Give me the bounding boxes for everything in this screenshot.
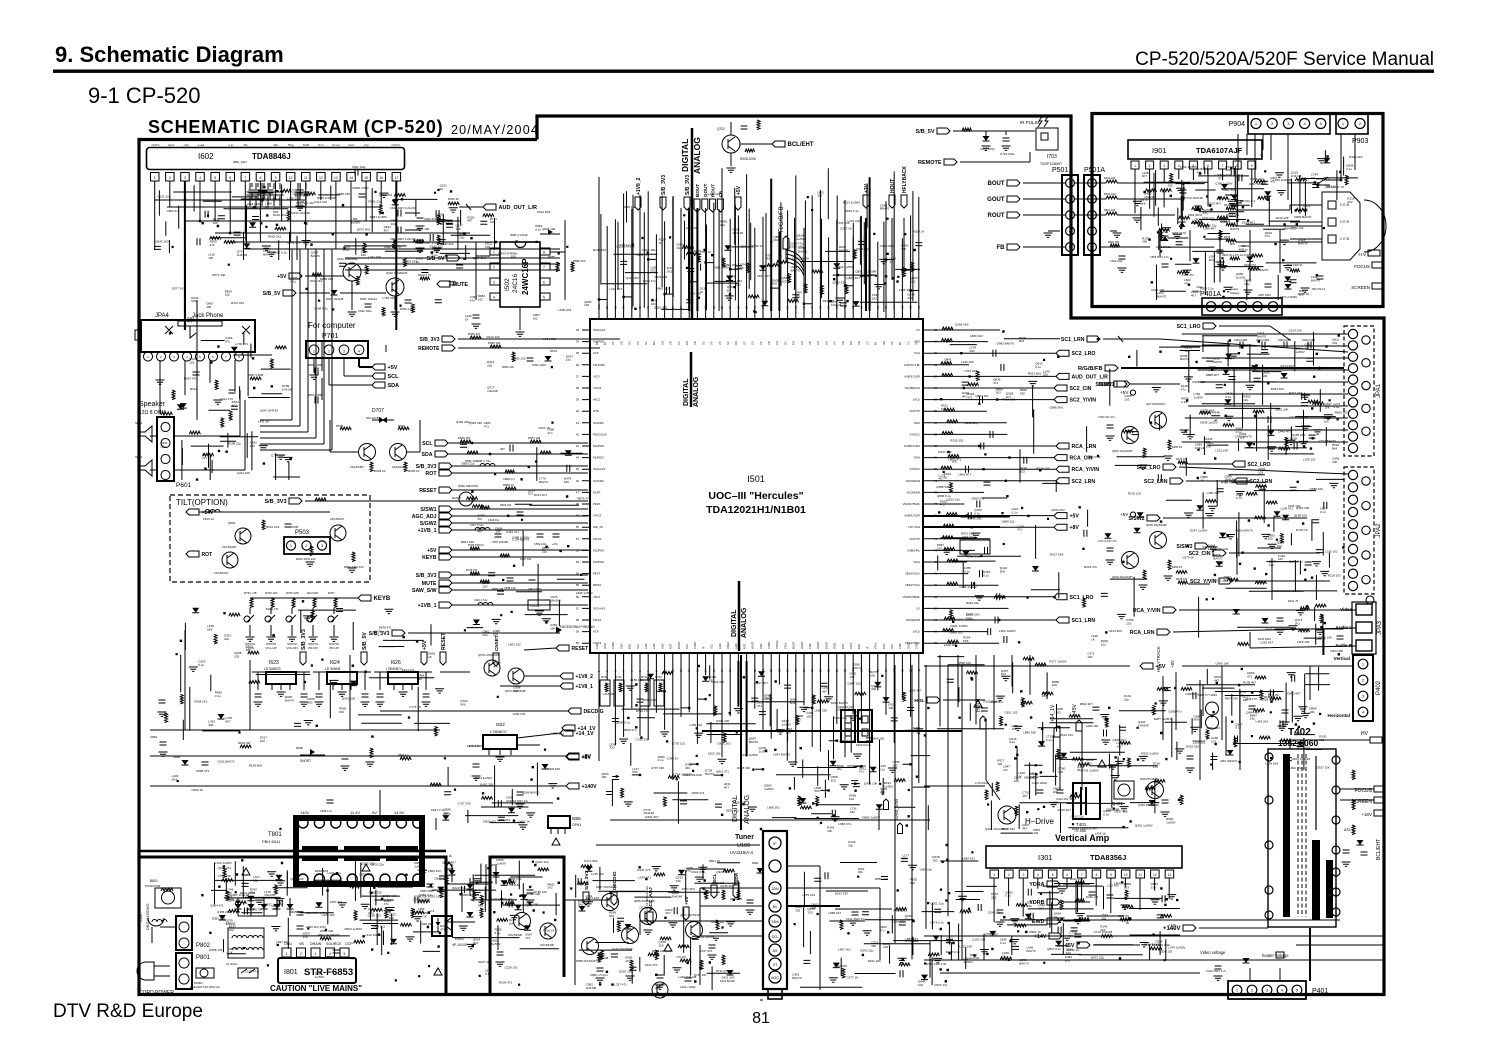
svg-text:AU: AU (800, 341, 804, 345)
svg-text:P3/RX: P3/RX (593, 502, 601, 506)
svg-text:D564 1K: D564 1K (1029, 930, 1041, 934)
svg-text:100: 100 (213, 221, 218, 225)
svg-text:0.1u: 0.1u (535, 227, 541, 231)
svg-text:RO: RO (685, 341, 689, 345)
svg-text:I804: I804 (455, 936, 464, 941)
svg-text:P05/CSCLK: P05/CSCLK (593, 432, 607, 436)
svg-text:10K: 10K (1053, 790, 1058, 794)
svg-text:R236 471: R236 471 (499, 980, 512, 984)
svg-text:57: 57 (576, 606, 580, 610)
svg-text:D602 1N4148: D602 1N4148 (326, 297, 344, 301)
svg-text:10K: 10K (1052, 683, 1057, 687)
svg-text:4K7: 4K7 (962, 395, 968, 399)
svg-text:CBS4/YUK1/: CBS4/YUK1/ (905, 572, 920, 576)
svg-text:+5V: +5V (427, 548, 437, 554)
svg-text:CNSET: CNSET (494, 635, 499, 651)
svg-text:22p: 22p (224, 637, 229, 641)
svg-text:D419 330: D419 330 (1186, 744, 1199, 748)
svg-text:100: 100 (1012, 727, 1017, 731)
svg-text:S/B_3V3: S/B_3V3 (301, 629, 307, 650)
svg-text:D481 1u/50V: D481 1u/50V (950, 624, 968, 628)
svg-text:GND: GND (833, 643, 837, 649)
svg-text:C413 5K6: C413 5K6 (1109, 629, 1123, 633)
EEPROM I502 24C16 (490, 242, 550, 307)
svg-text:D114 100: D114 100 (314, 200, 327, 204)
svg-text:RCA_Y/VIN: RCA_Y/VIN (1072, 467, 1100, 473)
svg-text:R205 102: R205 102 (593, 248, 606, 252)
svg-text:D979 BAV70: D979 BAV70 (1251, 268, 1268, 272)
svg-text:R875 47u: R875 47u (577, 497, 590, 501)
svg-text:C993 103: C993 103 (654, 275, 667, 279)
svg-text:L806 330: L806 330 (428, 869, 441, 873)
svg-text:I623: I623 (269, 660, 279, 666)
svg-text:DIGITAL: DIGITAL (731, 609, 738, 637)
svg-text:D411 103: D411 103 (722, 975, 735, 979)
svg-text:471: 471 (757, 704, 762, 708)
svg-text:4K7: 4K7 (232, 403, 238, 407)
standby supply transistors (576, 870, 740, 998)
svg-text:R700 1K: R700 1K (1296, 528, 1308, 532)
svg-text:D667 1N4148: D667 1N4148 (262, 197, 281, 201)
svg-text:10K: 10K (526, 904, 531, 908)
svg-text:+Vp: +Vp (363, 143, 369, 147)
svg-text:102: 102 (1020, 470, 1025, 474)
svg-text:471: 471 (967, 396, 972, 400)
svg-text:1u/50V: 1u/50V (759, 749, 769, 753)
svg-text:0.1u: 0.1u (1334, 405, 1340, 409)
svg-text:SC: SC (644, 341, 648, 345)
svg-text:Q502: Q502 (228, 521, 236, 525)
I501 pins (576, 304, 938, 672)
svg-text:8: 8 (543, 251, 545, 255)
svg-text:L939 1u/50V: L939 1u/50V (576, 591, 593, 595)
svg-text:R754 +7B: R754 +7B (244, 591, 257, 595)
svg-text:SCL: SCL (685, 643, 689, 649)
svg-text:56: 56 (576, 595, 580, 599)
svg-text:2SA1048Y: 2SA1048Y (392, 465, 406, 469)
svg-text:22p: 22p (1250, 717, 1255, 721)
svg-text:C676 0.1u: C676 0.1u (930, 921, 944, 925)
EEPROM wiring (418, 208, 620, 369)
svg-text:D419 5K6: D419 5K6 (880, 244, 894, 248)
svg-text:VTAC3: VTAC3 (593, 514, 602, 518)
svg-text:R138 4K7: R138 4K7 (1243, 680, 1257, 684)
svg-text:FACEDOWN PINNING: FACEDOWN PINNING (560, 625, 595, 629)
svg-text:Voltage: Voltage (1230, 291, 1240, 295)
svg-text:Q169 4K7: Q169 4K7 (442, 861, 456, 865)
svg-text:L597 471: L597 471 (638, 876, 651, 880)
svg-text:BAV70: BAV70 (705, 772, 714, 776)
svg-text:VD: VD (693, 341, 697, 345)
svg-text:1K: 1K (1126, 921, 1130, 925)
svg-text:47u: 47u (1225, 197, 1230, 201)
svg-text:R580 352: R580 352 (458, 436, 471, 440)
svg-text:47u: 47u (477, 517, 482, 521)
horizontal drive (975, 777, 1183, 833)
svg-text:BAV70: BAV70 (1213, 360, 1222, 364)
svg-text:UOC–III "Hercules": UOC–III "Hercules" (708, 490, 803, 502)
svg-text:103: 103 (782, 279, 787, 283)
svg-text:D400 47u: D400 47u (643, 279, 656, 283)
svg-text:AU: AU (824, 341, 828, 345)
svg-text:VS: VS (718, 341, 722, 345)
svg-text:R218 103: R218 103 (1036, 467, 1049, 471)
svg-text:C187 1K: C187 1K (840, 226, 852, 230)
svg-text:OCP: OCP (345, 942, 353, 946)
svg-text:0.1u: 0.1u (1046, 738, 1052, 742)
extra CRT parts (1148, 166, 1322, 300)
svg-text:SC: SC (726, 341, 730, 345)
svg-text:P21/PWM: P21/PWM (593, 363, 605, 367)
svg-text:R235 330: R235 330 (950, 439, 963, 443)
scart av wiring (1061, 323, 1356, 653)
svg-text:DIGITAL: DIGITAL (680, 139, 690, 172)
svg-text:1N4148: 1N4148 (237, 253, 248, 257)
svg-text:TDA8356J: TDA8356J (1090, 853, 1126, 862)
svg-text:SDA: SDA (422, 452, 433, 458)
svg-text:BOUT: BOUT (792, 641, 796, 649)
main IC I501 UOC TDA12021 (590, 319, 923, 653)
svg-text:3460 1N4007S: 3460 1N4007S (1220, 759, 1238, 763)
svg-text:SGW: SGW (914, 456, 921, 460)
svg-text:AS: AS (773, 949, 778, 953)
svg-text:2881 1.80M: 2881 1.80M (308, 363, 323, 367)
svg-text:VS: VS (759, 341, 763, 345)
svg-text:102: 102 (850, 675, 855, 679)
svg-text:+14_1V: +14_1V (578, 726, 597, 732)
svg-text:22p: 22p (250, 891, 255, 895)
svg-text:C351 22p: C351 22p (931, 901, 944, 905)
CRT board border (1092, 114, 1383, 307)
svg-text:1K: 1K (440, 187, 444, 191)
headphone jack JPA4 (135, 313, 255, 361)
svg-text:4: 4 (199, 176, 201, 180)
svg-text:CVBS: CVBS (693, 642, 697, 649)
svg-text:REMOTE: REMOTE (918, 160, 942, 166)
svg-text:1N4148: 1N4148 (487, 389, 498, 393)
svg-text:L604 1N4148: L604 1N4148 (260, 409, 278, 413)
svg-text:R586 2K3: R586 2K3 (573, 259, 586, 263)
svg-text:R1-: R1- (244, 143, 249, 147)
svg-text:22p: 22p (1027, 904, 1032, 908)
svg-text:22p: 22p (1077, 768, 1082, 772)
CRT board wiring (1074, 134, 1363, 299)
svg-text:L155 102: L155 102 (899, 288, 912, 292)
svg-text:D347 2K2: D347 2K2 (231, 301, 245, 305)
svg-text:0.1u: 0.1u (432, 253, 438, 257)
svg-text:2K2: 2K2 (548, 886, 554, 890)
svg-text:R128 5K6: R128 5K6 (249, 763, 263, 767)
svg-text:C888 +7L4(m): C888 +7L4(m) (590, 973, 608, 977)
svg-text:HOL: HOL (914, 698, 924, 704)
flyback transformer T402 (1265, 727, 1340, 927)
svg-text:R368 103: R368 103 (209, 948, 222, 952)
svg-text:SC1_LRO: SC1_LRO (1177, 324, 1201, 330)
svg-text:C797 330: C797 330 (651, 766, 664, 770)
svg-text:R218 47u: R218 47u (1084, 565, 1097, 569)
svg-text:Q702: Q702 (717, 127, 725, 131)
svg-text:1u/50V: 1u/50V (963, 960, 973, 964)
svg-text:4K7: 4K7 (477, 529, 483, 533)
svg-text:C941 0.1u: C941 0.1u (431, 808, 445, 812)
svg-text:D803 471: D803 471 (948, 458, 961, 462)
svg-text:L500 2K2: L500 2K2 (558, 308, 571, 312)
svg-text:22p: 22p (253, 878, 258, 882)
svg-text:RESET: RESET (419, 488, 437, 494)
left interface rows (369, 436, 595, 637)
svg-text:103: 103 (482, 585, 487, 589)
svg-text:AGC: AGC (771, 976, 779, 980)
svg-text:R396 10K: R396 10K (724, 263, 737, 267)
svg-text:I624: I624 (330, 660, 340, 666)
svg-text:P1AO2: P1AO2 (593, 537, 602, 541)
svg-text:VOL-DN: VOL-DN (286, 646, 297, 650)
svg-text:R547 100: R547 100 (520, 557, 532, 561)
svg-text:0.1u: 0.1u (495, 931, 501, 935)
svg-text:0.1u: 0.1u (1244, 282, 1250, 286)
svg-text:22p: 22p (542, 550, 547, 554)
svg-text:P801: P801 (196, 955, 211, 961)
svg-text:L754 330: L754 330 (964, 369, 977, 373)
svg-text:C118 1N4148: C118 1N4148 (616, 245, 635, 249)
svg-text:D334 1N4148: D334 1N4148 (291, 211, 310, 215)
speaker connector P601 (135, 401, 192, 489)
svg-text:D343 2K2: D343 2K2 (717, 742, 731, 746)
svg-text:13: 13 (1168, 873, 1172, 877)
svg-text:R741 1u/50V: R741 1u/50V (1081, 769, 1099, 773)
svg-text:Z202 KACS: Z202 KACS (856, 743, 871, 747)
svg-text:L600 4K7: L600 4K7 (958, 472, 971, 476)
svg-text:Q138 4K7: Q138 4K7 (1250, 177, 1264, 181)
svg-text:Y1/CY4G4: Y1/CY4G4 (908, 525, 921, 529)
svg-text:D204 4K7: D204 4K7 (645, 815, 659, 819)
svg-text:R906 471: R906 471 (1193, 739, 1206, 743)
svg-text:ROT: ROT (202, 552, 213, 558)
svg-text:100: 100 (772, 282, 777, 286)
svg-text:ROT: ROT (669, 643, 673, 649)
svg-text:Q428 10K: Q428 10K (864, 782, 878, 786)
svg-text:102: 102 (1058, 770, 1063, 774)
svg-text:D297 10K: D297 10K (1115, 810, 1128, 814)
svg-text:D330 102: D330 102 (1159, 950, 1172, 954)
svg-text:L463 2K2: L463 2K2 (1256, 719, 1269, 723)
svg-text:10K: 10K (456, 227, 461, 231)
svg-text:MUTE: MUTE (422, 581, 437, 587)
svg-text:HOUT: HOUT (890, 179, 896, 193)
svg-text:0.1u: 0.1u (1235, 726, 1241, 730)
svg-text:0.1u: 0.1u (1236, 496, 1242, 500)
svg-text:5K6: 5K6 (609, 914, 615, 918)
svg-text:5K6: 5K6 (1332, 446, 1338, 450)
svg-text:4: 4 (1037, 873, 1039, 877)
svg-text:L868 2K2: L868 2K2 (767, 806, 780, 810)
svg-text:GO: GO (882, 341, 886, 345)
svg-text:1K: 1K (428, 655, 432, 659)
svg-text:22p: 22p (391, 222, 396, 226)
svg-text:AOCTS7: AOCTS7 (910, 537, 921, 541)
svg-text:D586 100: D586 100 (320, 929, 333, 933)
svg-text:55: 55 (576, 583, 580, 587)
svg-text:I602: I602 (198, 152, 214, 161)
svg-text:heater voltage: heater voltage (1262, 953, 1289, 958)
svg-text:0.1u: 0.1u (198, 663, 204, 667)
deflection extra parts (940, 667, 1340, 973)
svg-text:D266 47u: D266 47u (435, 877, 448, 881)
svg-text:38: 38 (576, 386, 580, 390)
svg-text:58: 58 (576, 618, 580, 622)
middle power rails (150, 630, 604, 829)
svg-text:DIGITAL: DIGITAL (683, 378, 690, 406)
svg-text:Gnd: Gnd (168, 143, 174, 147)
svg-text:SC2_LRO: SC2_LRO (1072, 351, 1096, 357)
svg-text:Q868 0.1u: Q868 0.1u (937, 494, 951, 498)
svg-text:AU: AU (816, 341, 820, 345)
svg-text:SVR: SVR (303, 143, 310, 147)
svg-text:C979 1K: C979 1K (700, 250, 712, 254)
svg-text:R810 4K7: R810 4K7 (1080, 702, 1094, 706)
svg-text:471: 471 (1269, 563, 1274, 567)
svg-text:CV: CV (751, 341, 755, 345)
svg-text:D861: D861 (752, 861, 759, 865)
svg-text:3: 3 (493, 281, 495, 285)
svg-text:R340 +39: R340 +39 (1086, 895, 1099, 899)
svg-text:L78M05CV: L78M05CV (386, 667, 403, 671)
svg-text:BAV70: BAV70 (798, 250, 807, 254)
svg-text:BL: BL (874, 341, 878, 345)
svg-text:HOUT: HOUT (816, 641, 820, 649)
svg-text:39: 39 (576, 398, 580, 402)
svg-text:+5V: +5V (1070, 514, 1080, 520)
svg-text:C713 1N4148: C713 1N4148 (1290, 415, 1309, 419)
svg-text:22p: 22p (720, 223, 725, 227)
svg-text:53: 53 (576, 560, 580, 564)
svg-text:L560 22p: L560 22p (1202, 216, 1215, 220)
svg-text:IF: IF (701, 646, 705, 649)
svg-text:1N4148: 1N4148 (831, 303, 842, 307)
svg-text:Q602 1.5C8643F: Q602 1.5C8643F (386, 271, 408, 275)
svg-text:2K2: 2K2 (172, 777, 178, 781)
svg-text:R660 3K: R660 3K (448, 197, 459, 201)
svg-text:0.1u: 0.1u (343, 248, 349, 252)
svg-text:2881 0.80M: 2881 0.80M (308, 393, 323, 397)
svg-text:103: 103 (1299, 293, 1304, 297)
svg-text:1: 1 (286, 952, 288, 956)
svg-text:D888 4K7: D888 4K7 (1206, 373, 1220, 377)
svg-text:P401: P401 (1312, 988, 1328, 995)
svg-text:C390 22p: C390 22p (965, 421, 978, 425)
svg-text:ASCN24G8: ASCN24G8 (906, 490, 920, 494)
svg-text:R114 330: R114 330 (487, 335, 500, 339)
svg-text:Q583 330: Q583 330 (469, 421, 483, 425)
svg-text:330: 330 (417, 677, 422, 681)
svg-text:60: 60 (576, 641, 580, 645)
svg-text:ANALOG: ANALOG (692, 137, 702, 174)
svg-text:VSF/RCTB/WL: VSF/RCTB/WL (903, 502, 921, 506)
svg-text:Q168 10K: Q168 10K (789, 245, 803, 249)
svg-text:R468 330: R468 330 (737, 766, 750, 770)
svg-text:GND: GND (603, 643, 607, 649)
svg-text:C868 473: C868 473 (196, 769, 209, 773)
svg-text:10K: 10K (550, 627, 555, 631)
svg-text:4P-1010C: 4P-1010C (452, 943, 468, 947)
svg-text:VD: VD (808, 341, 812, 345)
connector P401 (1228, 981, 1328, 999)
svg-text:D502 103: D502 103 (619, 969, 632, 973)
svg-text:R556 447: R556 447 (468, 332, 481, 336)
svg-text:VD: VD (857, 341, 861, 345)
svg-text:D861 10K: D861 10K (1275, 407, 1288, 411)
svg-text:R888 1K: R888 1K (503, 483, 514, 487)
svg-text:C E B: C E B (1340, 237, 1350, 241)
svg-text:L903 102: L903 102 (508, 642, 521, 646)
svg-text:22p: 22p (1002, 954, 1007, 958)
svg-text:D989 BAV70: D989 BAV70 (1294, 215, 1311, 219)
svg-text:R874 330: R874 330 (1225, 696, 1238, 700)
svg-text:AUD_OUT_L/R: AUD_OUT_L/R (1072, 374, 1109, 380)
svg-text:I822: I822 (496, 722, 505, 727)
svg-text:Q294 2K2: Q294 2K2 (1051, 508, 1065, 512)
svg-text:C719 100u: C719 100u (1000, 152, 1015, 156)
svg-text:HV: HV (1361, 731, 1369, 737)
svg-text:SC2_Y/VIN: SC2_Y/VIN (1070, 398, 1097, 404)
svg-text:C377 1K: C377 1K (847, 976, 859, 980)
svg-text:T402: T402 (1288, 727, 1311, 738)
svg-text:U100: U100 (737, 843, 750, 849)
svg-text:D577 2K2: D577 2K2 (172, 286, 186, 290)
svg-text:R531: R531 (398, 424, 406, 428)
svg-text:Q50H H8N7009: Q50H H8N7009 (458, 484, 478, 488)
svg-text:103: 103 (234, 654, 239, 658)
svg-text:ANALOG: ANALOG (741, 607, 748, 638)
svg-text:L849 102: L849 102 (872, 736, 885, 740)
svg-text:BLK: BLK (857, 644, 861, 649)
connector JPA1 (1344, 326, 1382, 456)
svg-text:L694 47u: L694 47u (1289, 766, 1302, 770)
svg-text:C700 22p: C700 22p (1070, 814, 1083, 818)
svg-text:L858 4K7: L858 4K7 (828, 911, 841, 915)
svg-text:C615 0.1u: C615 0.1u (639, 906, 653, 910)
svg-text:5K6: 5K6 (632, 770, 638, 774)
svg-text:D103 103: D103 103 (490, 897, 503, 901)
svg-text:S/SW2: S/SW2 (1176, 544, 1192, 550)
svg-text:22p: 22p (1311, 176, 1316, 180)
svg-text:C902 BAV70: C902 BAV70 (983, 699, 1000, 703)
svg-text:RCA_LRN: RCA_LRN (1072, 444, 1097, 450)
svg-text:Q166 5K6: Q166 5K6 (379, 193, 393, 197)
svg-text:R897 102: R897 102 (711, 920, 724, 924)
svg-text:R321 +7B: R321 +7B (1070, 877, 1083, 881)
svg-text:LD?D8W23: LD?D8W23 (264, 667, 281, 671)
svg-text:330: 330 (208, 723, 213, 727)
svg-text:L139 100: L139 100 (287, 197, 300, 201)
svg-text:BAV70: BAV70 (285, 699, 294, 703)
svg-text:1N4148: 1N4148 (509, 883, 520, 887)
svg-text:102: 102 (189, 361, 194, 365)
svg-text:R603 330: R603 330 (461, 540, 474, 544)
svg-text:L112 102: L112 102 (1107, 884, 1120, 888)
vertical amp tags (924, 877, 1384, 960)
svg-text:L868 2K2: L868 2K2 (497, 818, 510, 822)
svg-text:L853 4K7: L853 4K7 (360, 872, 373, 876)
svg-text:R141 2K2: R141 2K2 (1316, 177, 1330, 181)
svg-text:C203 1u/50V: C203 1u/50V (697, 935, 715, 939)
svg-text:BAV70: BAV70 (1257, 335, 1266, 339)
svg-text:R738 100: R738 100 (905, 939, 918, 943)
svg-text:3: 3 (343, 350, 345, 354)
svg-text:C512: C512 (530, 604, 538, 608)
svg-text:Q901 1u/50V: Q901 1u/50V (1135, 824, 1153, 828)
svg-text:C104+ 1000p: C104+ 1000p (680, 985, 696, 989)
